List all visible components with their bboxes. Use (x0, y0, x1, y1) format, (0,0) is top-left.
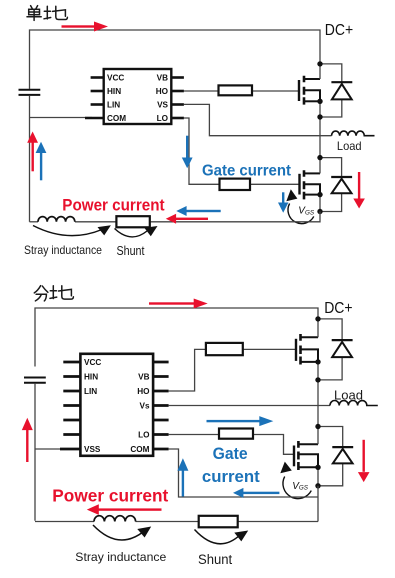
svg-text:VCC: VCC (84, 358, 101, 367)
arrow blue left (COM return horizontal) (233, 488, 279, 498)
shunt resistor (bottom circuit) (199, 516, 238, 528)
svg-text:DC+: DC+ (325, 22, 353, 39)
svg-text:Vs: Vs (139, 401, 149, 410)
svg-text:Load: Load (337, 139, 362, 153)
wire: bottom power return rail (bottom circuit) (35, 521, 318, 523)
shunt resistor (top circuit) (116, 216, 149, 227)
wire: rail segments around Q3 (317, 319, 319, 427)
svg-text:HIN: HIN (84, 372, 98, 381)
svg-text:HO: HO (137, 387, 150, 396)
node: junction dots on low-side rail (bottom circuit) (315, 424, 320, 489)
title 分地 (hand-drawn strokes) (34, 286, 73, 301)
curved arrow under stray inductance (top) (33, 225, 111, 235)
wire: Vs to switch node / load (169, 405, 330, 407)
transistor Q3 (high-side MOSFET, bottom circuit) (296, 334, 318, 365)
svg-text:HIN: HIN (107, 87, 121, 96)
diode D2 (low-side freewheel) (320, 158, 352, 212)
svg-text:VGS: VGS (292, 481, 309, 492)
svg-text:LIN: LIN (84, 387, 97, 396)
svg-text:VS: VS (157, 100, 168, 109)
arrow red up (left branch) (27, 132, 38, 172)
svg-text:Power current: Power current (62, 196, 165, 214)
wire: COM to left rail (30, 117, 93, 119)
wire: rail segments around Q4 (317, 427, 319, 486)
arrow blue down (gate return at Q2) (278, 192, 288, 212)
svg-text:Load: Load (334, 387, 363, 402)
wire: COM return path (split ground) (169, 449, 318, 497)
wire: LO down to low-side gate resistor row (184, 118, 300, 184)
svg-text:VB: VB (138, 372, 149, 381)
curved arrow under shunt (bottom) (195, 530, 249, 544)
resistor R1 (high-side gate) (219, 85, 253, 95)
inductor stray inductance (bottom circuit) (94, 516, 136, 522)
svg-text:Shunt: Shunt (198, 552, 232, 567)
arrow blue down (gate current into LO wire) (182, 136, 193, 169)
svg-text:LO: LO (157, 114, 169, 123)
svg-text:Gate current: Gate current (202, 163, 292, 180)
wire: VS to switch node (184, 104, 332, 135)
node: junction dots on high-side rail (317, 61, 322, 120)
svg-text:LIN: LIN (107, 100, 120, 109)
svg-text:VCC: VCC (107, 73, 124, 82)
arrow blue up (COM return vertical) (177, 458, 188, 496)
node: junction dots on high-side rail (bottom circuit) (315, 316, 320, 382)
svg-text:COM: COM (130, 445, 149, 454)
curved arrow under stray inductance (bottom) (93, 525, 151, 540)
inductor stray inductance (top circuit) (38, 217, 75, 222)
svg-text:DC+: DC+ (324, 300, 352, 317)
arrow red right (power current on top wire) (62, 22, 109, 32)
diode D4 (low-side freewheel, bottom circuit) (318, 427, 353, 486)
svg-text:Stray inductance: Stray inductance (24, 243, 102, 257)
inductor Load (bottom circuit) (330, 401, 378, 406)
wire: HO to gate resistor R1 and Q1 gate (184, 90, 299, 92)
curved arrow under shunt (top) (115, 226, 158, 237)
op-amp U2 gate driver IC (60, 354, 169, 456)
arrow red left (power current on bottom rail) (166, 214, 208, 224)
arrow blue up (left branch) (36, 142, 47, 181)
wire: rail segments around Q1 (319, 64, 321, 158)
VGS arc arrow (top circuit) (286, 189, 314, 223)
diode D3 (high-side freewheel, bottom circuit) (318, 319, 353, 380)
svg-text:VB: VB (157, 73, 168, 82)
transistor Q4 (low-side MOSFET, bottom circuit) (294, 441, 318, 470)
wire: top DC+ rail (cap top to right corner) (30, 30, 321, 89)
svg-text:VGS: VGS (298, 206, 315, 217)
label Gate current (blue, two lines) (202, 445, 260, 486)
resistor R2 (low-side gate) (220, 179, 251, 190)
arrow red down (current through D2) (353, 172, 365, 209)
title 单地 (hand-drawn strokes) (27, 6, 67, 21)
node: junction dots on low-side rail (317, 155, 322, 214)
arrow red down (current through D4) (358, 440, 370, 482)
svg-text:Gate: Gate (213, 445, 248, 463)
diode D1 (high-side freewheel) (320, 64, 352, 117)
resistor R4 (low-side gate, bottom circuit) (219, 429, 253, 439)
arrow blue left (gate return on bottom rail) (176, 206, 220, 216)
op-amp U1 gate driver IC (85, 69, 184, 124)
wire: top DC+ rail (bottom circuit) (35, 308, 318, 367)
svg-text:COM: COM (107, 114, 126, 123)
svg-text:HO: HO (156, 87, 169, 96)
svg-text:LO: LO (138, 430, 150, 439)
arrow red left (power current, bottom circuit) (87, 504, 162, 515)
inductor Load (top circuit) (332, 131, 375, 136)
wire: VSS to left rail (35, 448, 64, 450)
wire: rail segments around Q2 (319, 158, 321, 212)
wire: bottom return rail (top circuit) (30, 212, 321, 222)
VGS arc arrow (bottom circuit) (280, 462, 311, 499)
svg-text:Stray inductance: Stray inductance (75, 550, 166, 564)
capacitor C2 (24, 378, 46, 383)
svg-text:Shunt: Shunt (117, 243, 145, 258)
wire: LO to gate resistor R4 and Q4 gate (169, 435, 294, 455)
capacitor C1 (19, 90, 41, 95)
transistor Q1 (high-side MOSFET) (299, 76, 320, 105)
wire: HO up to gate resistor R3 and Q3 gate (169, 349, 296, 391)
svg-text:VSS: VSS (84, 445, 101, 454)
arrow blue right (gate current above R4) (207, 416, 274, 426)
resistor R3 (high-side gate, bottom circuit) (206, 343, 243, 355)
svg-text:Power current: Power current (52, 485, 168, 505)
arrow red up (left branch, bottom circuit) (22, 418, 33, 462)
wire: cap bottom down left side to bottom rail (bottom circuit) (34, 384, 36, 521)
wire: rail from diode bottom to power return (bottom circuit) (317, 486, 319, 522)
transistor Q2 (low-side MOSFET) (300, 170, 321, 199)
wire: cap bottom down left side to bottom rail (29, 96, 31, 222)
arrow red right (power current on top wire, bottom circuit) (149, 299, 208, 309)
svg-text:current: current (202, 468, 260, 486)
